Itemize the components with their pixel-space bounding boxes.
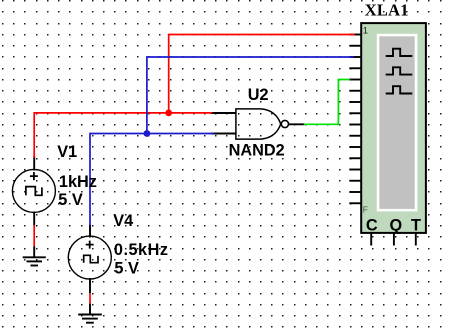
XLA1 screen waveform 3 [386, 86, 413, 93]
wire V4 to ground (black upper) [89, 278, 91, 293]
svg-text:1kHz: 1kHz [59, 173, 97, 191]
junction node (red net) [165, 110, 172, 117]
wire V1 to ground (red middle) [33, 225, 35, 246]
XLA1 screen waveform 1 [386, 49, 413, 56]
XLA1 bottom terminal stub Q [393, 233, 395, 246]
wire red net: V1 up and across to gate input A [34, 113, 212, 158]
wire blue net: junction up and across to XLA1 pin 3 [147, 57, 354, 134]
logic analyzer XLA1 body [361, 23, 426, 233]
XLA1 left input pin stubs 1-16 [349, 35, 361, 204]
svg-text:5 V: 5 V [58, 191, 83, 209]
wire V1 to ground (black upper) [33, 212, 35, 226]
wire V4 to ground (red middle) [89, 293, 91, 303]
voltage source V4 (clock source) [68, 236, 111, 279]
ground (V1) [23, 257, 46, 265]
wire red net: junction up and across to XLA1 pin 1 [169, 35, 355, 113]
svg-text:5 V: 5 V [114, 260, 139, 278]
junction node (blue net) [144, 130, 151, 137]
svg-text:1: 1 [363, 26, 368, 37]
svg-text:V4: V4 [113, 212, 133, 230]
NAND gate U2 input pin A stub [211, 112, 237, 114]
svg-text:U2: U2 [248, 86, 269, 104]
voltage source V1 (clock source) [12, 169, 55, 212]
wire blue net: V4 up and across to gate input B [90, 134, 214, 226]
svg-text:0.5kHz: 0.5kHz [114, 241, 169, 259]
svg-text:V1: V1 [57, 143, 77, 161]
NAND gate U2 input pin B stub [211, 133, 237, 135]
wire V4 to ground (black lower) [89, 304, 91, 315]
XLA1 bottom terminal stub C [370, 233, 372, 246]
svg-text:C: C [366, 216, 378, 234]
wire green net: gate output to XLA1 pin 5 [304, 80, 350, 125]
wire red V1 top pin stub (black) [33, 157, 35, 171]
svg-text:XLA1: XLA1 [365, 1, 409, 20]
wire V4 top pin stub (black) [89, 225, 91, 238]
svg-text:Q: Q [390, 216, 403, 234]
ground (V4) [78, 315, 102, 323]
XLA1 bottom terminal stub T [415, 233, 417, 246]
svg-text:T: T [411, 216, 421, 234]
NAND gate U2 body [236, 109, 281, 139]
XLA1 screen [377, 34, 418, 212]
svg-text:NAND2: NAND2 [229, 141, 285, 159]
XLA1 screen waveform 2 [386, 67, 413, 74]
wire V1 to ground (black lower) [33, 246, 35, 257]
svg-text:F: F [363, 205, 368, 215]
NAND gate U2 output pin stub [288, 123, 304, 125]
NAND gate U2 inversion bubble [281, 120, 288, 127]
